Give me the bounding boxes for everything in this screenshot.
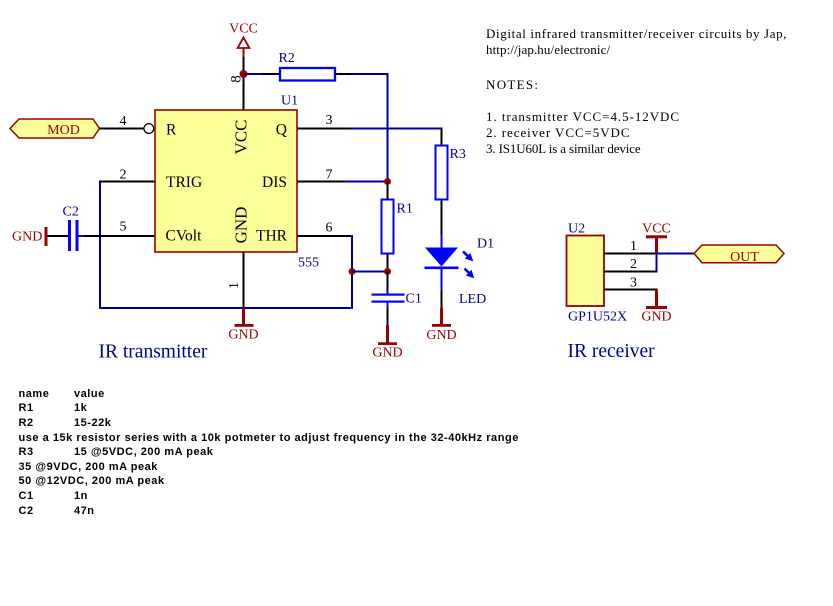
svg-text:8: 8	[229, 75, 245, 83]
inversion bubble pin 4	[144, 124, 154, 134]
svg-text:1: 1	[630, 239, 637, 254]
svg-text:THR: THR	[256, 228, 288, 245]
ground GND (receiver)	[641, 290, 671, 325]
svg-text:GND: GND	[426, 328, 456, 343]
resistor R1	[382, 182, 413, 272]
svg-text:VCC: VCC	[229, 22, 258, 37]
svg-text:LED: LED	[459, 292, 486, 307]
svg-text:555: 555	[298, 256, 319, 271]
svg-text:5: 5	[120, 220, 127, 235]
junction VCC node	[240, 70, 248, 78]
svg-text:GND: GND	[641, 310, 671, 325]
wire TRIG vertical to bottom rail	[99, 182, 101, 310]
input connector MOD	[10, 119, 100, 138]
wire U2 pin 1	[604, 253, 658, 255]
wire VCC node to R2 (blue part)	[244, 73, 264, 75]
wire THR pin 6	[297, 235, 353, 237]
wire Q pin 3 (black part)	[297, 128, 352, 130]
ground GND (LED)	[426, 308, 456, 343]
svg-text:VCC: VCC	[642, 222, 671, 237]
wire VCC node to R2 (black part)	[262, 73, 280, 75]
wire TRIG horizontal	[99, 181, 155, 183]
svg-text:MOD: MOD	[47, 123, 80, 138]
notes paragraph	[486, 26, 787, 42]
value table	[19, 387, 519, 518]
svg-text:3: 3	[326, 113, 333, 128]
capacitor C2	[63, 205, 79, 252]
power symbol VCC (transmitter)	[229, 22, 258, 58]
wire R2 right (black part)	[335, 73, 352, 75]
wire R3 to LED	[441, 200, 443, 249]
svg-text:TRIG: TRIG	[166, 174, 202, 191]
wire GND bar to C2	[48, 235, 69, 237]
wire LED cathode down	[441, 269, 443, 308]
ground GND (left, at C2)	[12, 227, 48, 246]
svg-text:C1: C1	[406, 292, 422, 307]
bottom rail wire	[99, 307, 353, 309]
wire Q pin 3 (blue part)	[351, 128, 443, 130]
svg-text:GP1U52X: GP1U52X	[568, 310, 627, 325]
svg-text:CVolt: CVolt	[166, 228, 203, 245]
svg-text:Q: Q	[276, 122, 287, 139]
svg-text:IR transmitter: IR transmitter	[99, 342, 208, 363]
svg-text:DIS: DIS	[262, 174, 287, 191]
wire pin2 riser	[656, 253, 658, 272]
power symbol VCC (receiver)	[642, 222, 671, 255]
svg-text:2: 2	[120, 168, 127, 183]
svg-text:3: 3	[630, 276, 637, 291]
svg-text:U2: U2	[568, 222, 585, 237]
svg-text:D1: D1	[477, 237, 494, 252]
wire DIS pin 7 (blue part)	[344, 181, 388, 183]
svg-text:U1: U1	[281, 94, 298, 109]
svg-text:VCC: VCC	[232, 120, 251, 155]
junction DIS node	[384, 178, 391, 185]
svg-text:GND: GND	[232, 207, 251, 244]
wire R2 right (blue part)	[351, 73, 389, 75]
svg-text:R1: R1	[397, 202, 413, 217]
wire THR vertical down	[351, 235, 353, 309]
wire to OUT	[657, 253, 695, 255]
svg-text:C2: C2	[63, 205, 79, 220]
svg-text:2: 2	[630, 257, 637, 272]
wire THR node to R1/C1 node	[352, 271, 388, 273]
wire Q corner down to R3	[441, 130, 443, 146]
junction THR node	[349, 268, 356, 275]
svg-text:1: 1	[227, 282, 242, 289]
resistor R2	[279, 51, 336, 81]
wire DIS pin 7 (black part)	[297, 181, 345, 183]
svg-text:R3: R3	[450, 147, 466, 162]
wire C2 to CVolt pin 5	[79, 235, 156, 237]
svg-text:4: 4	[120, 114, 127, 129]
wire VCC stem to U1 pin 8	[243, 57, 245, 110]
capacitor C1	[372, 272, 422, 326]
LED emission arrows	[463, 252, 473, 277]
ground GND (U1 pin 1)	[228, 308, 258, 343]
svg-text:R2: R2	[279, 51, 295, 66]
ground GND (C1)	[372, 325, 402, 361]
svg-text:GND: GND	[228, 328, 258, 343]
svg-text:6: 6	[326, 221, 333, 236]
resistor R3	[436, 146, 466, 200]
diode D1 LED	[425, 237, 495, 308]
svg-text:IR receiver: IR receiver	[568, 341, 656, 362]
svg-text:R: R	[166, 122, 177, 139]
wire U2 pin 2	[604, 271, 658, 273]
wire MOD to pin 4	[100, 128, 144, 130]
svg-text:GND: GND	[372, 346, 402, 361]
IC U2 GP1U52X body	[567, 222, 628, 325]
svg-text:OUT: OUT	[730, 250, 759, 265]
svg-text:GND: GND	[12, 230, 42, 245]
wire U1 pin 1 stem	[243, 252, 245, 308]
wire U2 pin 3	[604, 289, 658, 291]
output connector OUT	[694, 245, 784, 265]
junction R1/C1 node	[384, 268, 391, 275]
op-amp U1 555 timer body	[155, 94, 319, 271]
svg-text:7: 7	[326, 168, 333, 183]
wire R2 corner down to DIS node	[387, 73, 389, 182]
